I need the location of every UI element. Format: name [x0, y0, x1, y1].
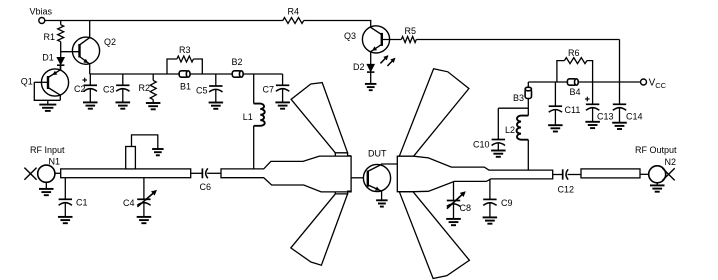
svg-text:Q2: Q2 [104, 37, 116, 47]
svg-text:R2: R2 [139, 83, 151, 93]
svg-text:C11: C11 [565, 105, 581, 115]
svg-text:Q3: Q3 [344, 31, 356, 41]
svg-text:L1: L1 [243, 112, 253, 122]
svg-text:C6: C6 [200, 182, 212, 192]
svg-text:RF Output: RF Output [635, 145, 677, 155]
svg-text:L2: L2 [505, 125, 515, 135]
svg-text:R5: R5 [405, 26, 417, 36]
svg-text:D1: D1 [42, 53, 54, 63]
svg-text:B2: B2 [232, 57, 243, 67]
svg-text:C5: C5 [196, 86, 208, 96]
svg-text:R6: R6 [568, 48, 580, 58]
svg-text:B4: B4 [570, 87, 581, 97]
svg-text:C3: C3 [103, 85, 115, 95]
svg-text:C1: C1 [76, 197, 88, 207]
svg-text:DUT: DUT [368, 149, 387, 159]
svg-text:R1: R1 [43, 32, 55, 42]
svg-text:Q1: Q1 [21, 77, 33, 87]
svg-text:R4: R4 [288, 6, 300, 16]
svg-text:C8: C8 [460, 203, 472, 213]
svg-text:R3: R3 [179, 45, 191, 55]
svg-text:RF Input: RF Input [30, 145, 65, 155]
svg-text:N1: N1 [49, 156, 61, 166]
svg-text:C9: C9 [501, 198, 513, 208]
svg-text:D2: D2 [353, 62, 365, 72]
svg-text:C14: C14 [626, 111, 643, 121]
svg-text:C10: C10 [473, 139, 490, 149]
svg-text:C12: C12 [558, 185, 575, 195]
svg-text:B3: B3 [513, 93, 524, 103]
svg-text:Vbias: Vbias [30, 7, 53, 17]
svg-text:B1: B1 [180, 82, 191, 92]
svg-text:C13: C13 [597, 111, 614, 121]
svg-text:C7: C7 [263, 85, 275, 95]
svg-text:C4: C4 [123, 198, 135, 208]
svg-text:N2: N2 [665, 157, 677, 167]
svg-text:C2: C2 [74, 84, 86, 94]
